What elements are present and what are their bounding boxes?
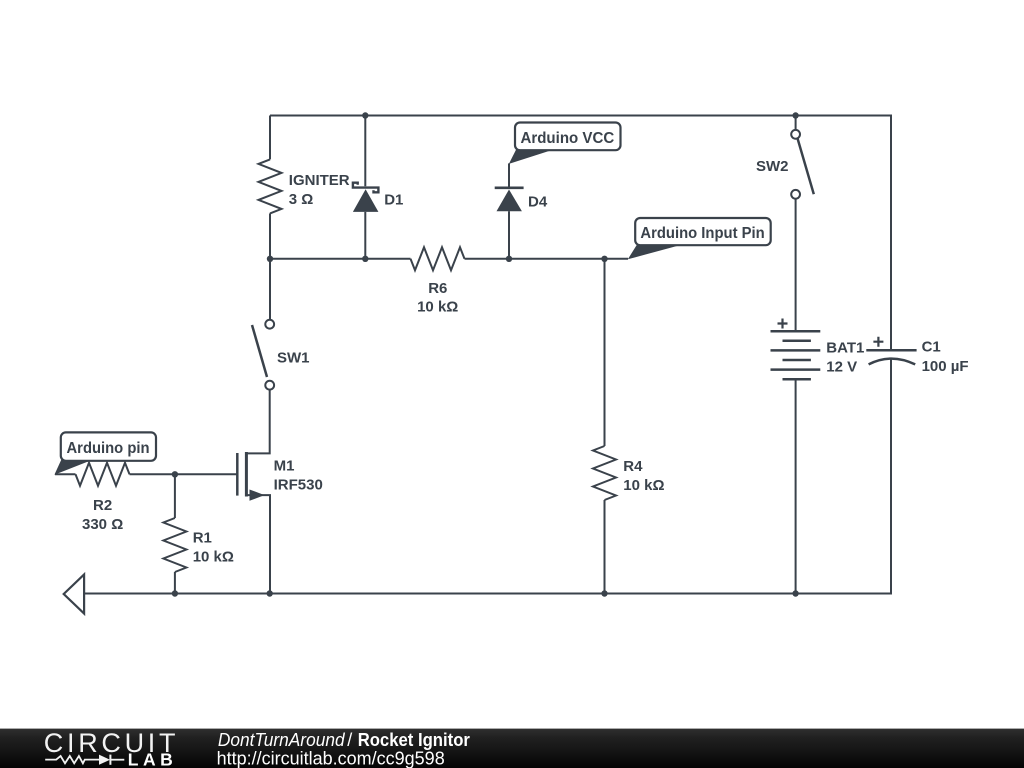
diode D4 bar — [495, 187, 524, 190]
capacitor C1 bottom plate — [869, 359, 916, 365]
wire R1 top — [174, 474, 176, 518]
capacitor C1 plus sign — [873, 337, 883, 347]
svg-text:Arduino pin: Arduino pin — [67, 440, 150, 457]
svg-text:R1: R1 — [193, 530, 212, 547]
wire right side below C1 — [890, 360, 892, 594]
svg-text:Arduino Input Pin: Arduino Input Pin — [640, 225, 764, 242]
wire right side above C1 — [890, 115, 892, 351]
node callout Arduino pin box — [61, 432, 156, 460]
svg-text:http://circuitlab.com/cc9g598: http://circuitlab.com/cc9g598 — [217, 748, 445, 768]
svg-text:R2: R2 — [93, 497, 112, 514]
transistor M1 channel bar — [245, 452, 248, 497]
logo diode triangle — [99, 755, 110, 765]
battery BAT1 plate short 2 — [783, 359, 811, 362]
resistor IGNITER — [259, 159, 282, 213]
svg-text:3 Ω: 3 Ω — [289, 191, 314, 208]
svg-text:SW1: SW1 — [277, 350, 310, 367]
wire R1 bottom — [174, 572, 176, 594]
wire D4 top — [508, 163, 510, 186]
svg-text:DontTurnAround: DontTurnAround — [218, 730, 346, 750]
node callout Arduino Input Pin tail — [628, 244, 686, 260]
logo diode lead — [110, 759, 124, 761]
svg-text:CIRCUIT: CIRCUIT — [44, 728, 179, 758]
junction dot node D1 — [362, 256, 368, 262]
svg-text:D1: D1 — [384, 192, 403, 209]
wire R4 top — [604, 259, 606, 446]
switch SW2 bottom contact — [791, 190, 800, 199]
wire node to SW1 — [269, 259, 271, 320]
svg-text:C1: C1 — [922, 339, 941, 356]
wire M1 source — [246, 495, 270, 593]
node callout Arduino pin tail — [54, 459, 93, 475]
svg-text:IGNITER: IGNITER — [289, 172, 350, 189]
switch SW1 bottom contact — [265, 381, 274, 390]
svg-text:10 kΩ: 10 kΩ — [193, 549, 234, 566]
wire SW2 to battery — [795, 199, 797, 332]
junction dot top D1 — [362, 112, 368, 118]
svg-text:M1: M1 — [274, 458, 295, 475]
svg-text:/: / — [347, 730, 352, 750]
svg-text:R6: R6 — [428, 280, 447, 297]
wire D1 bottom — [364, 212, 366, 259]
svg-text:R4: R4 — [623, 458, 643, 475]
wire R4 bottom — [604, 500, 606, 594]
svg-text:D4: D4 — [528, 194, 548, 211]
resistor R1 — [163, 518, 186, 572]
svg-text:IRF530: IRF530 — [274, 477, 323, 494]
switch SW1 blade — [252, 325, 267, 377]
svg-text:Arduino VCC: Arduino VCC — [521, 130, 615, 147]
switch SW2 top contact — [791, 130, 800, 139]
wire SW1 to drain — [246, 390, 269, 454]
junction dot bottom R4 — [601, 590, 607, 596]
junction dot bottom source — [267, 590, 273, 596]
wire IGNITER bottom — [269, 213, 271, 258]
wire SW2 top — [795, 116, 797, 130]
wire D1 top — [364, 116, 366, 187]
node callout Arduino VCC tail — [509, 149, 556, 164]
battery BAT1 plate short 1 — [783, 340, 811, 343]
diode D4 triangle — [497, 190, 522, 212]
capacitor C1 top plate — [866, 349, 916, 352]
battery BAT1 plate long 2 — [771, 349, 821, 352]
wire gate — [130, 473, 238, 475]
battery BAT1 plate long 1 — [771, 330, 821, 333]
battery BAT1 plate short 3 — [783, 378, 811, 381]
footer bar — [0, 729, 1024, 768]
node callout Arduino Input Pin box — [635, 218, 771, 245]
junction dot bottom battery — [792, 590, 798, 596]
transistor M1 source arrow — [250, 490, 265, 501]
junction dot node R4 — [601, 256, 607, 262]
svg-text:Rocket Ignitor: Rocket Ignitor — [358, 730, 470, 750]
logo diode bar — [109, 755, 111, 765]
svg-text:10 kΩ: 10 kΩ — [417, 299, 458, 316]
wire top bus — [270, 115, 891, 117]
resistor R2 — [76, 463, 130, 486]
svg-text:LAB: LAB — [128, 750, 173, 768]
resistor R4 — [593, 446, 616, 500]
svg-text:BAT1: BAT1 — [826, 340, 864, 357]
switch SW1 top contact — [265, 320, 274, 329]
node callout Arduino VCC box — [515, 123, 621, 151]
wire R2 left lead — [55, 473, 76, 475]
wire battery bottom — [795, 379, 797, 593]
junction dot node IGNITER — [267, 256, 273, 262]
wire node1 left — [270, 258, 411, 260]
svg-text:100 µF: 100 µF — [922, 358, 969, 375]
junction dot node D4 — [506, 256, 512, 262]
svg-text:10 kΩ: 10 kΩ — [623, 477, 664, 494]
switch SW2 blade — [798, 138, 814, 194]
svg-text:330 Ω: 330 Ω — [82, 516, 123, 533]
battery BAT1 plus sign — [778, 319, 788, 329]
junction dot bottom R1 — [172, 590, 178, 596]
junction dot top SW2 — [792, 112, 798, 118]
diode D1 triangle — [353, 189, 379, 212]
wire D4 bottom — [508, 211, 510, 259]
ground flag — [64, 575, 84, 614]
wire node2 right — [465, 258, 629, 260]
diode D1 schottky bar — [353, 183, 379, 193]
svg-text:12 V: 12 V — [826, 359, 857, 376]
junction dot gate node — [172, 471, 178, 477]
wire bottom bus — [84, 593, 892, 595]
battery BAT1 plate long 3 — [771, 368, 821, 371]
resistor R6 — [411, 247, 465, 270]
logo resistor zigzag — [45, 756, 99, 763]
wire IGNITER top — [269, 116, 271, 160]
svg-text:SW2: SW2 — [756, 158, 789, 175]
transistor M1 gate bar — [236, 453, 239, 496]
